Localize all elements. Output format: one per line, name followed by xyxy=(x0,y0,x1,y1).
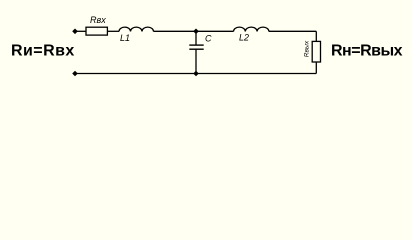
wire top rail: terminal to resistor xyxy=(75,30,86,32)
wire bottom rail xyxy=(75,73,316,75)
wire capacitor down to node B xyxy=(195,49,197,73)
wire down into load resistor xyxy=(315,31,317,41)
svg-text:Rвых: Rвых xyxy=(304,40,311,57)
wire L1 to node A xyxy=(154,30,197,32)
inductor L2 xyxy=(234,27,269,31)
svg-text:C: C xyxy=(205,34,212,44)
capacitor C xyxy=(189,44,203,46)
resistor Rвых (load) xyxy=(312,41,320,62)
svg-text:Rн=Rвых: Rн=Rвых xyxy=(331,43,403,60)
node B (capacitor bottom junction) xyxy=(193,71,199,77)
wire node A to L2 xyxy=(196,30,234,32)
wire resistor to L1 xyxy=(107,30,119,32)
svg-text:L2: L2 xyxy=(239,33,249,43)
inductor L1 xyxy=(119,27,154,31)
wire node A down to capacitor xyxy=(195,31,197,45)
svg-text:L1: L1 xyxy=(120,33,130,43)
resistor Rвх xyxy=(86,27,107,35)
wire L2 to top-right corner xyxy=(269,30,316,32)
node input bottom terminal xyxy=(72,71,78,77)
svg-text:Rи=Rвх: Rи=Rвх xyxy=(11,43,75,60)
node input top terminal xyxy=(72,29,78,35)
svg-text:Rвх: Rвх xyxy=(90,15,106,25)
wire load resistor to bottom rail xyxy=(315,62,317,74)
node A (capacitor top junction) xyxy=(193,29,199,35)
